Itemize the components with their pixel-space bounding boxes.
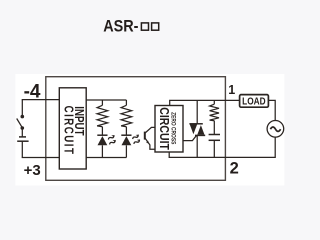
title blank square 1 — [141, 23, 148, 30]
input bottom rail — [86, 157, 126, 159]
svg-text:+3: +3 — [24, 162, 41, 179]
phototransistor emitter arrowhead — [146, 141, 149, 144]
resistor R2 — [121, 105, 132, 126]
branch1 wire top — [101, 100, 103, 105]
triac MT1 wire — [196, 135, 198, 157]
wire LOAD to AC source — [268, 100, 275, 120]
battery plate short (top) — [19, 136, 26, 138]
branch2 wire mid — [125, 127, 127, 136]
triac MT2 wire — [196, 100, 198, 123]
phototransistor collector lead — [145, 127, 155, 132]
snubber capacitor C1 bottom plate — [209, 139, 220, 141]
triac Q2 right triangle — [197, 125, 204, 135]
switch contact dot lower — [21, 126, 25, 130]
triac Q2 bottom bar — [195, 134, 205, 136]
battery plate long (bottom) — [17, 140, 28, 142]
wire battery to bottom — [21, 141, 23, 157]
snubber capacitor C1 top plate — [209, 134, 220, 136]
AC source circle — [267, 121, 284, 138]
LED D2 triangle — [122, 136, 132, 145]
LED D1 cathode bar — [97, 134, 107, 136]
wire terminal3 bottom-left horizontal — [22, 157, 60, 159]
phototransistor emitter lead — [145, 138, 155, 149]
AC source sine symbol — [270, 127, 280, 131]
white drawing panel — [15, 74, 284, 186]
zero cross circuit box — [155, 106, 183, 153]
LED D1 triangle — [98, 136, 108, 145]
zerocross bottom stub — [169, 152, 225, 157]
LED D1 emission arrows — [106, 134, 119, 146]
resistor R1 — [97, 105, 108, 126]
svg-text:2: 2 — [230, 160, 239, 178]
wire external left vertical upper — [21, 100, 23, 116]
snubber wire mid — [213, 121, 215, 135]
input circuit box — [59, 88, 86, 169]
phototransistor Q1 base bar — [144, 132, 146, 140]
input top rail — [86, 99, 126, 101]
branch1 wire mid — [101, 127, 103, 136]
LOAD box — [240, 95, 269, 108]
LED D2 cathode bar — [121, 134, 131, 136]
branch2 wire bottom — [125, 145, 127, 157]
svg-text:1: 1 — [228, 83, 235, 97]
branch1 wire bottom — [101, 145, 103, 157]
wire switch to battery stub — [21, 129, 23, 136]
wire AC source to terminal2 — [225, 137, 275, 157]
wire terminal4 top-left horizontal — [22, 99, 60, 101]
terminal1 rail from zerocross box to LOAD — [170, 100, 240, 105]
snubber resistor R3 — [210, 104, 219, 121]
svg-text:ASR-: ASR- — [103, 17, 138, 35]
triac Q2 left triangle — [190, 125, 197, 135]
svg-text:CIRCUIT: CIRCUIT — [61, 106, 75, 156]
triac Q2 top bar — [189, 123, 202, 125]
snubber wire bottom — [213, 140, 215, 157]
triac gate wire — [183, 136, 196, 141]
title blank square 2 — [152, 23, 159, 30]
LED D2 opto arrows — [130, 133, 143, 145]
switch arm — [17, 119, 22, 128]
branch2 wire top — [125, 100, 127, 105]
svg-text:LOAD: LOAD — [242, 96, 266, 108]
snubber wire top — [213, 100, 215, 104]
switch contact dot upper — [21, 115, 25, 119]
outer SSR box — [46, 77, 226, 181]
svg-text:CIRCUIT: CIRCUIT — [157, 107, 172, 150]
